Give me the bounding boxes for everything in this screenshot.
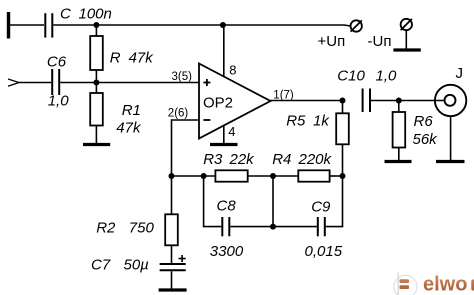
svg-text:0,015: 0,015 [305, 243, 343, 260]
svg-text:2(6): 2(6) [168, 107, 189, 119]
ground C7 [159, 288, 187, 291]
node rail right [340, 173, 346, 179]
resistor R6 56k [398, 101, 400, 113]
wire top rail [53, 25, 350, 26]
resistor R5 1k [342, 101, 344, 114]
svg-text:J: J [456, 65, 464, 82]
op-amp OP2 [199, 64, 271, 139]
ground R1 [83, 143, 110, 146]
node output [340, 98, 346, 104]
connector J [435, 85, 466, 116]
wire J to ground [450, 116, 452, 160]
svg-text:4: 4 [228, 124, 235, 139]
svg-text:R3: R3 [203, 151, 223, 168]
plus sign C7 [179, 255, 186, 262]
capacitor C 100n [45, 13, 52, 37]
node rail left [169, 173, 175, 179]
resistor R1 47k [95, 85, 97, 93]
svg-text:50µ: 50µ [124, 257, 149, 274]
wire mid rail down [272, 176, 274, 227]
svg-text:R6: R6 [414, 113, 434, 130]
input arrow [8, 79, 19, 86]
svg-text:elwo: elwo [423, 274, 467, 295]
svg-text:R1: R1 [122, 102, 141, 119]
plus sign [203, 79, 210, 86]
svg-text:R5: R5 [286, 113, 306, 130]
pin 8 wire [223, 25, 225, 77]
svg-text:1,0: 1,0 [376, 68, 398, 85]
svg-text:750: 750 [129, 220, 155, 237]
resistor R2 750 [171, 176, 173, 214]
node rail mid [270, 173, 276, 179]
pin 4 wire [223, 126, 225, 144]
ground J [436, 160, 465, 163]
wire inverting input down [172, 120, 200, 176]
resistor R 47k [95, 25, 97, 36]
ground bar -Un [393, 48, 420, 51]
svg-text:OP2: OP2 [203, 95, 233, 112]
node top of R [93, 22, 99, 28]
svg-text:R: R [110, 50, 121, 67]
svg-text:-Uп: -Uп [368, 33, 392, 50]
svg-text:100n: 100n [79, 6, 112, 23]
svg-text:+Uп: +Uп [318, 33, 346, 50]
capacitor C10 [363, 89, 370, 113]
svg-text:R2: R2 [96, 220, 116, 237]
svg-text:C7: C7 [91, 257, 111, 274]
svg-text:1k: 1k [313, 113, 330, 130]
svg-text:220k: 220k [298, 151, 333, 168]
node C8/C9 junction [270, 224, 276, 230]
svg-text:R4: R4 [272, 151, 291, 168]
node rail C8 branch [201, 173, 207, 179]
svg-text:C9: C9 [311, 198, 331, 215]
wire C6 to op-amp + input [60, 82, 199, 84]
wire arrow to C6 [19, 82, 51, 84]
svg-text:56k: 56k [413, 131, 439, 148]
node pin8 rail [220, 22, 226, 28]
ground R6 [385, 160, 412, 163]
terminal -Un [401, 19, 412, 30]
svg-text:47k: 47k [129, 50, 155, 67]
svg-text:1,0: 1,0 [48, 93, 70, 110]
wire to J [399, 100, 446, 102]
svg-text:C10: C10 [337, 68, 365, 85]
input terminal bar top-left [7, 12, 10, 39]
feedback rail wires [172, 175, 216, 177]
svg-text:C6: C6 [47, 54, 67, 71]
capacitor C7 50u electrolytic [160, 264, 186, 270]
capacitor C8 branch [204, 176, 222, 227]
svg-text:8: 8 [229, 62, 236, 77]
elwo logo [394, 273, 474, 295]
capacitor C6 [52, 69, 59, 95]
svg-text:C: C [60, 6, 71, 23]
node input [93, 80, 99, 86]
wire -Un to bar [405, 30, 407, 48]
capacitor C9 branch [273, 226, 317, 228]
resistor R4 220k [298, 170, 329, 181]
minus sign [203, 119, 210, 121]
node after C10 [396, 98, 402, 104]
ground pin4 [210, 143, 238, 146]
terminal +Un [351, 20, 362, 31]
svg-text:3(5): 3(5) [172, 71, 193, 83]
wire terminal to C [10, 24, 44, 26]
svg-text:22k: 22k [229, 151, 256, 168]
resistor R3 22k [215, 170, 247, 181]
svg-text:3300: 3300 [210, 243, 244, 260]
wire output [271, 100, 343, 102]
svg-text:47k: 47k [116, 119, 142, 136]
svg-text:C8: C8 [217, 198, 237, 215]
